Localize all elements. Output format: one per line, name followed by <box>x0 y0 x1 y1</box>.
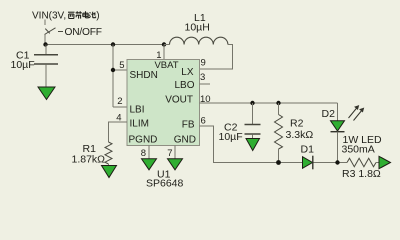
junction node at SHDN pin 5 <box>111 68 115 72</box>
svg-text:3: 3 <box>200 72 205 83</box>
switch ON/OFF blade <box>45 28 56 35</box>
svg-text:1.87kΩ: 1.87kΩ <box>72 153 106 165</box>
capacitor C1 <box>11 45 59 88</box>
svg-text:7: 7 <box>167 148 172 159</box>
svg-text:FB: FB <box>182 119 195 130</box>
svg-text:): ) <box>96 11 99 22</box>
wire VBAT top rail <box>45 44 164 46</box>
svg-text:R2: R2 <box>290 117 304 129</box>
output arrow to LED load <box>379 156 391 168</box>
wire GND pin 7 stub <box>174 146 176 159</box>
resistor R1 <box>72 122 128 166</box>
wire L1 to LX pin 9 <box>200 45 233 70</box>
wire FB pin 6 to bottom rail <box>200 126 303 163</box>
svg-text:10µF: 10µF <box>11 59 35 71</box>
svg-text:10µF: 10µF <box>219 131 243 143</box>
svg-text:ON/OFF: ON/OFF <box>65 27 102 38</box>
ground under pin 7 <box>168 159 183 170</box>
ground under pin 8 <box>142 159 157 170</box>
junction node at SHDN riser <box>111 42 115 46</box>
svg-text:SHDN: SHDN <box>130 70 158 81</box>
svg-text:8: 8 <box>141 148 146 159</box>
svg-text:10µH: 10µH <box>185 22 210 34</box>
wire switch to VBAT node <box>44 35 46 45</box>
svg-text:D2: D2 <box>322 108 336 120</box>
svg-text:1: 1 <box>156 50 161 61</box>
svg-text:PGND: PGND <box>129 134 158 145</box>
resistor R2 <box>275 103 314 163</box>
capacitor C2 <box>219 103 261 143</box>
diode D1 <box>301 143 315 169</box>
wire VBAT pin 1 stub <box>163 45 165 60</box>
diode D2 (LED) <box>322 103 345 163</box>
wire VIN to switch <box>44 20 46 26</box>
junction node at VBAT pin1/L1 <box>162 42 166 46</box>
inductor L1 <box>164 12 228 45</box>
svg-text:VIN(3V,: VIN(3V, <box>32 11 66 22</box>
ground under C1 <box>38 87 55 100</box>
wire VOUT rail <box>200 102 338 104</box>
svg-text:GND: GND <box>174 134 196 145</box>
svg-text:LBI: LBI <box>130 105 145 116</box>
IC U1 SP6648 body <box>127 60 200 146</box>
svg-text:9: 9 <box>201 58 206 69</box>
net label VIN <box>32 11 66 22</box>
wire PGND pin 8 stub <box>148 146 150 159</box>
switch label dash <box>58 31 63 33</box>
svg-text:LX: LX <box>181 67 194 78</box>
svg-text:SP6648: SP6648 <box>146 177 184 189</box>
CJK char 池 <box>89 12 96 18</box>
junction node at switch/C1 <box>43 42 47 46</box>
ground under R1 <box>102 166 117 178</box>
ground under C2 <box>246 139 260 151</box>
svg-text:VOUT: VOUT <box>165 94 193 105</box>
junction node VOUT/C2 <box>250 101 254 105</box>
svg-text:D1: D1 <box>301 143 315 155</box>
wire LBO pin 3 stub <box>200 83 211 85</box>
svg-text:2: 2 <box>117 96 122 107</box>
CJK char 节 <box>76 11 82 18</box>
resistor R3 <box>342 158 381 180</box>
CJK char 电 <box>83 11 89 18</box>
svg-text:350mA: 350mA <box>342 143 375 155</box>
CJK char 两 <box>68 12 75 18</box>
svg-text:VBAT: VBAT <box>154 60 178 71</box>
LED emission arrows <box>349 106 364 121</box>
svg-text:5: 5 <box>119 60 124 71</box>
svg-text:ILIM: ILIM <box>130 119 149 130</box>
wire SHDN/LBI riser <box>113 45 127 108</box>
junction node D2 bottom <box>335 160 339 164</box>
svg-text:3.3kΩ: 3.3kΩ <box>286 129 314 141</box>
svg-text:LBO: LBO <box>174 80 194 91</box>
wire D1 to R3 <box>314 162 348 164</box>
svg-text:R3 1.8Ω: R3 1.8Ω <box>342 168 381 180</box>
junction node VOUT/R2 <box>276 101 280 105</box>
junction node R2 bottom <box>276 160 281 165</box>
svg-text:6: 6 <box>201 116 206 127</box>
